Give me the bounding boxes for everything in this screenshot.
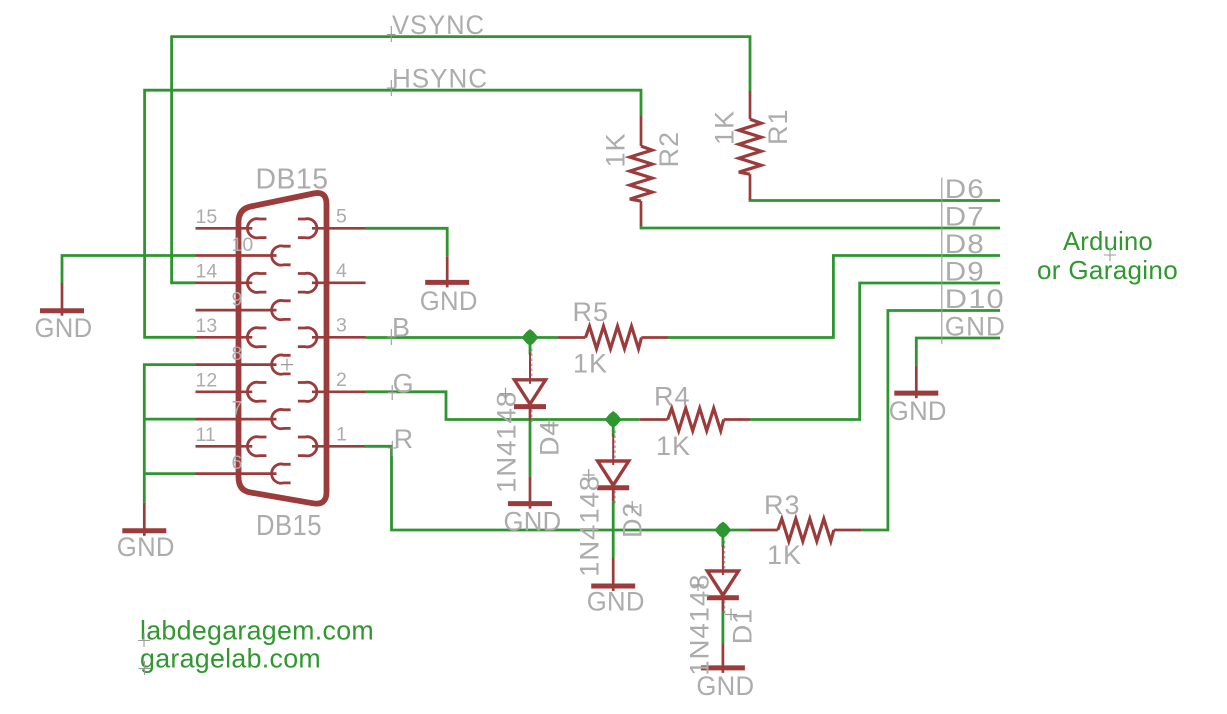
wire G net: pin2 to junction — [366, 392, 640, 420]
pin 10 — [196, 254, 277, 257]
wire D2 cathode to ground — [612, 502, 615, 558]
svg-text:7: 7 — [232, 398, 243, 420]
svg-text:R5: R5 — [573, 297, 610, 327]
resistor R4 — [640, 418, 668, 421]
svg-text:DB15: DB15 — [256, 164, 329, 196]
pin 1 — [312, 445, 366, 448]
svg-text:11: 11 — [196, 424, 216, 446]
svg-text:R3: R3 — [764, 490, 801, 520]
svg-text:Arduino: Arduino — [1063, 226, 1153, 256]
pin 12 — [196, 390, 253, 393]
diode D2 cathode lead — [612, 488, 615, 502]
wire R net: pin1 to junction — [364, 446, 750, 530]
wire pin6 branch — [144, 472, 195, 475]
svg-text:R2: R2 — [654, 131, 684, 168]
pin 2 — [312, 390, 366, 393]
diode D1 cathode lead — [722, 598, 725, 612]
origin cross D4 — [500, 388, 512, 400]
diode D4 cathode lead — [529, 407, 532, 421]
svg-text:GND: GND — [889, 396, 947, 426]
wire R2 to D7 — [641, 226, 1000, 229]
svg-text:GND: GND — [117, 532, 175, 562]
origin cross D2 — [583, 469, 595, 481]
svg-text:1N4148: 1N4148 — [684, 574, 714, 676]
wire pins 8,7,6 ground bus — [144, 365, 195, 503]
pin 14 — [196, 281, 253, 284]
wire HSYNC net: pin13 to R2 — [145, 90, 641, 337]
svg-text:VSYNC: VSYNC — [392, 10, 485, 40]
svg-text:GND: GND — [504, 507, 562, 537]
svg-text:10: 10 — [232, 234, 254, 256]
pin 11 — [196, 445, 253, 448]
svg-text:HSYNC: HSYNC — [392, 64, 488, 94]
ground GND left-bottom — [143, 503, 146, 536]
pin 5 — [312, 227, 366, 230]
wire pin7 branch — [144, 418, 195, 421]
wire VSYNC net: pin14 to R1 — [172, 37, 750, 283]
pin dashes D1 — [724, 541, 726, 569]
svg-text:R1: R1 — [763, 108, 793, 145]
wire R net: R3 to D10 — [861, 311, 1000, 531]
diode D1 triangle — [707, 571, 738, 595]
svg-text:13: 13 — [196, 315, 218, 337]
svg-text:1N4148: 1N4148 — [492, 391, 522, 493]
svg-text:2: 2 — [336, 369, 347, 391]
wire GND net right — [916, 338, 1000, 365]
svg-text:D6: D6 — [945, 174, 985, 204]
svg-text:D9: D9 — [945, 257, 985, 287]
diode D4 triangle — [514, 380, 545, 404]
origin cross D1 — [692, 579, 704, 591]
svg-text:G: G — [393, 369, 415, 399]
wire G net: R4 to D9 — [750, 283, 1000, 420]
junction node B — [522, 330, 538, 346]
svg-text:R: R — [394, 424, 415, 454]
svg-text:or Garagino: or Garagino — [1037, 255, 1178, 285]
svg-text:1K: 1K — [573, 349, 608, 379]
svg-text:14: 14 — [196, 260, 218, 282]
svg-text:D7: D7 — [945, 202, 985, 232]
resistor R2 — [640, 116, 643, 146]
wire B net: pin3 to R5 junction — [366, 336, 558, 339]
diode D2 triangle — [598, 461, 629, 485]
svg-text:1N4148: 1N4148 — [575, 475, 605, 577]
svg-text:3: 3 — [336, 315, 347, 337]
ground GND pin10 — [61, 283, 64, 316]
svg-text:DB15: DB15 — [256, 510, 322, 542]
svg-text:1K: 1K — [710, 110, 740, 145]
svg-text:9: 9 — [232, 289, 243, 311]
wire D1 anode stub — [722, 530, 725, 547]
origin cross DB15 — [281, 359, 293, 371]
ground GND pin5 — [446, 256, 449, 287]
pin 13 — [196, 336, 253, 339]
junction node R — [715, 522, 731, 538]
pin 4 — [312, 281, 366, 284]
pin dashes D4 — [531, 349, 533, 378]
wire D1 cathode to ground — [722, 612, 725, 644]
svg-text:GND: GND — [420, 286, 478, 316]
svg-text:garagelab.com: garagelab.com — [140, 644, 321, 674]
svg-text:8: 8 — [232, 343, 243, 365]
svg-text:12: 12 — [196, 369, 218, 391]
ground D1 — [722, 644, 725, 673]
svg-text:4: 4 — [336, 260, 347, 282]
svg-text:labdegaragem.com: labdegaragem.com — [140, 616, 374, 646]
wire B net: R5 to D8 — [668, 256, 1000, 338]
resistor R1 — [749, 91, 752, 119]
svg-text:1K: 1K — [767, 540, 802, 570]
pin 8 — [196, 363, 277, 366]
svg-text:R4: R4 — [654, 382, 691, 412]
svg-text:15: 15 — [196, 206, 218, 228]
ground GND right — [915, 365, 918, 398]
wire pin5 to ground — [366, 228, 448, 256]
svg-text:GND: GND — [945, 312, 1006, 342]
svg-text:B: B — [392, 313, 411, 343]
diode D4 cathode bar — [514, 404, 546, 409]
svg-text:D10: D10 — [945, 284, 1005, 314]
junction node G — [605, 412, 621, 428]
svg-text:D8: D8 — [945, 229, 985, 259]
connector DB15 body — [239, 193, 327, 504]
svg-text:6: 6 — [232, 452, 243, 474]
svg-text:5: 5 — [336, 206, 347, 228]
svg-text:D1: D1 — [727, 608, 757, 644]
svg-text:GND: GND — [587, 587, 645, 617]
pin 9 — [196, 309, 277, 312]
diode D1 cathode bar — [707, 595, 739, 600]
diode D2 cathode bar — [597, 485, 629, 490]
wire D4 anode stub — [529, 338, 532, 355]
wire D4 cathode to ground — [529, 421, 532, 477]
resistor R5 — [557, 336, 585, 339]
svg-text:1K: 1K — [656, 431, 691, 461]
ground D4 — [529, 476, 532, 508]
pin 7 — [196, 418, 277, 421]
svg-text:1: 1 — [336, 424, 347, 446]
svg-text:GND: GND — [35, 313, 93, 343]
pin 15 — [196, 227, 253, 230]
wire R1 to D6 — [750, 199, 1000, 201]
pin dashes D2 — [614, 431, 616, 460]
wire D2 anode stub — [612, 420, 615, 437]
resistor R3 — [750, 529, 778, 532]
wire pin10 to ground — [62, 256, 196, 284]
pin 3 — [312, 336, 366, 339]
pin 6 — [196, 472, 277, 475]
svg-text:1K: 1K — [601, 132, 631, 167]
ground D2 — [612, 558, 615, 592]
